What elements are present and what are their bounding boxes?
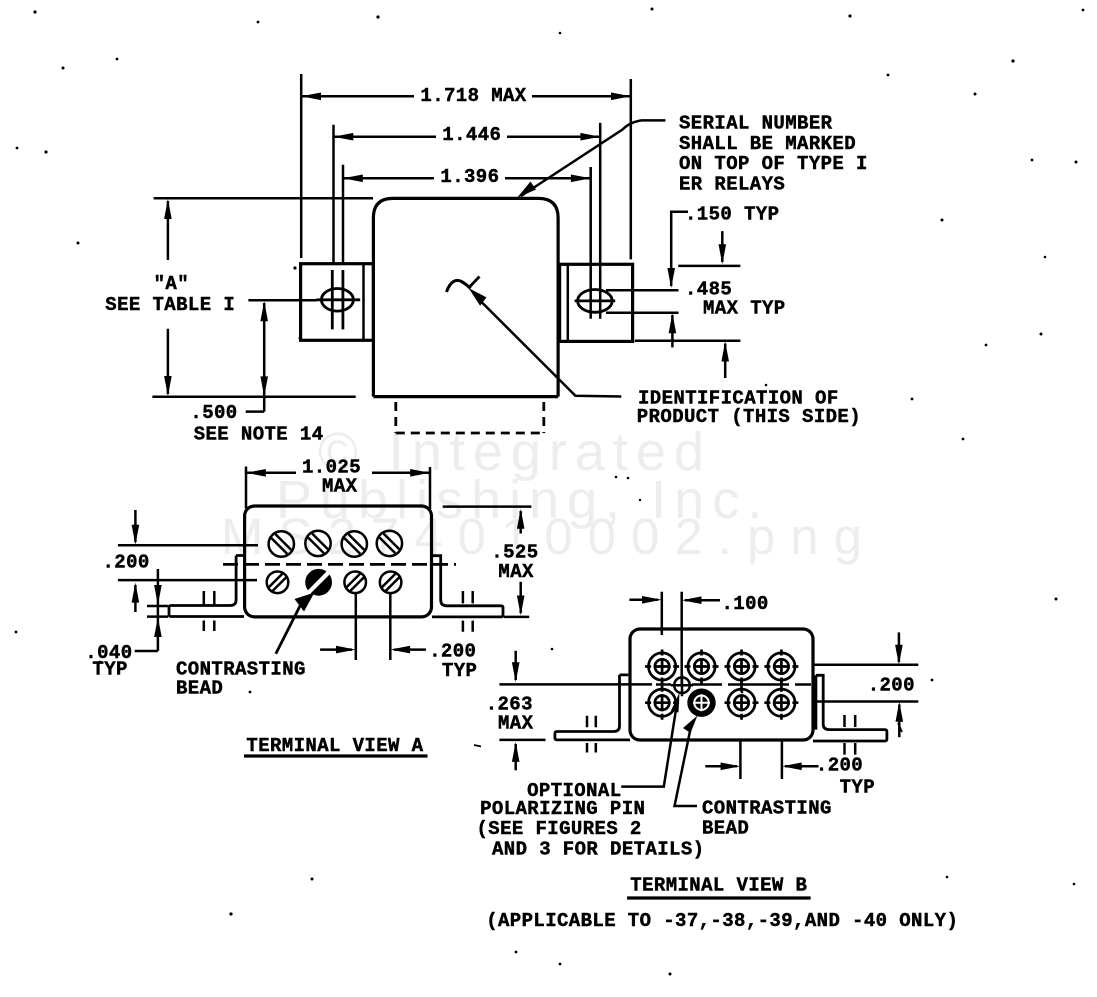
VIEW B .200 right bottom ref line <box>813 700 918 703</box>
dim line 1.396 <box>343 177 591 180</box>
VIEW B .100 arrows <box>629 599 720 602</box>
right mounting bracket <box>560 264 633 341</box>
svg-text:ER RELAYS: ER RELAYS <box>679 174 785 196</box>
VIEW A 1.025 extension lines <box>246 467 430 510</box>
right screw tangent lines <box>606 290 679 313</box>
identification leader flag <box>469 277 480 289</box>
extension line 1.396 left <box>342 165 345 264</box>
svg-text:TERMINAL VIEW A: TERMINAL VIEW A <box>246 735 423 757</box>
VIEW B polarizing pin <box>671 674 693 696</box>
VIEW B .263 down arrow <box>514 651 517 680</box>
A dim top reference line <box>154 197 373 200</box>
svg-text:.200: .200 <box>816 755 863 777</box>
VIEW B .200 TYP arrows <box>705 765 818 768</box>
VIEW A .525 bottom ref line <box>504 616 529 619</box>
hidden base (dashed) <box>396 402 544 433</box>
VIEW B right flange <box>813 675 887 741</box>
svg-text:BEAD: BEAD <box>176 678 223 700</box>
underline terminal view A <box>244 754 428 757</box>
VIEW B .200 right up arrow <box>898 705 901 738</box>
left bracket screw <box>321 289 353 312</box>
svg-text:TYP: TYP <box>442 660 477 682</box>
identification leader diagonal <box>479 300 621 397</box>
VIEW A .200 down arrow <box>134 510 137 542</box>
svg-text:MAX: MAX <box>498 713 534 735</box>
svg-text:MAX: MAX <box>498 561 534 583</box>
right screw slot line <box>575 299 616 302</box>
extension line 1.446 left <box>332 125 335 264</box>
VIEW B .200 right down arrow <box>898 632 901 662</box>
left bracket inner edge <box>362 264 365 341</box>
VIEW A .200 upper ref line <box>118 544 258 547</box>
svg-text:1.396: 1.396 <box>440 166 499 188</box>
extension line 1.718 right <box>630 79 633 259</box>
VIEW A left flange <box>169 556 245 617</box>
VIEW B polarizing pin leader <box>621 700 677 787</box>
relay body (side view) <box>373 198 558 396</box>
VIEW B left flange <box>555 675 630 740</box>
VIEW B bottom leader lines <box>740 741 782 779</box>
extension line 1.446 right <box>599 123 602 319</box>
right bracket screw <box>578 290 613 313</box>
A dim bottom reference line <box>152 395 355 398</box>
bracket top extension line <box>678 265 740 268</box>
.150 TYP leader <box>671 212 688 286</box>
identification leader arrow <box>469 288 487 306</box>
.485 lower up arrow <box>724 344 727 379</box>
extension line 1.718 left <box>300 74 303 258</box>
VIEW A right flange <box>432 556 503 617</box>
VIEW A screw B1 <box>267 572 289 594</box>
VIEW B terminal T3 <box>725 650 759 684</box>
left screw vertical lines <box>332 270 343 329</box>
VIEW A bottom leader lines <box>356 593 391 660</box>
svg-text:(SEE FIGURES 2: (SEE FIGURES 2 <box>477 818 642 840</box>
svg-text:POLARIZING PIN: POLARIZING PIN <box>480 798 645 820</box>
svg-text:PRODUCT (THIS SIDE): PRODUCT (THIS SIDE) <box>637 406 861 428</box>
svg-text:ON TOP OF TYPE I: ON TOP OF TYPE I <box>679 153 868 175</box>
VIEW B .263 bottom ref line <box>499 739 545 742</box>
svg-text:SEE NOTE 14: SEE NOTE 14 <box>194 424 324 446</box>
VIEW A .040 dim <box>135 569 158 651</box>
svg-text:SHALL BE MARKED: SHALL BE MARKED <box>679 133 856 155</box>
svg-text:"A": "A" <box>154 273 189 295</box>
svg-text:.150 TYP: .150 TYP <box>685 204 779 226</box>
VIEW A body <box>245 506 432 617</box>
.485 upper arrow <box>721 231 724 262</box>
underline terminal view B <box>627 896 811 899</box>
extension line 1.396 right <box>589 167 592 319</box>
VIEW B right flange hole marks <box>845 715 856 755</box>
VIEW A .525 top ref line <box>443 505 532 508</box>
serial number leader <box>521 120 665 196</box>
VIEW B .263 up arrow <box>514 744 517 770</box>
VIEW A screw A3 <box>342 531 367 556</box>
right bracket inner edge <box>567 264 570 341</box>
svg-text:TYP: TYP <box>840 777 875 799</box>
left screw slot line <box>317 298 361 301</box>
VIEW A screw A1 <box>269 531 294 556</box>
VIEW B contrasting bead (filled) <box>687 689 715 717</box>
svg-text:MAX TYP: MAX TYP <box>703 298 786 320</box>
VIEW B terminal T2 <box>685 650 719 684</box>
svg-text:.100: .100 <box>722 593 769 615</box>
svg-text:SEE TABLE I: SEE TABLE I <box>105 294 235 316</box>
VIEW A bead leader <box>276 600 303 654</box>
identification leader hook <box>447 280 471 292</box>
.485 inner up arrow <box>671 315 674 347</box>
svg-text:TYP: TYP <box>92 659 127 681</box>
VIEW B centerline (dashed+solid) <box>499 683 652 686</box>
VIEW A .525 down arrow <box>519 582 522 613</box>
VIEW A left flange hole marks <box>204 591 215 631</box>
svg-text:.200: .200 <box>868 675 915 697</box>
VIEW A .525 up arrow <box>519 511 522 534</box>
svg-text:BEAD: BEAD <box>702 818 749 840</box>
svg-text:(APPLICABLE TO -37,-38,-39,AND: (APPLICABLE TO -37,-38,-39,AND -40 ONLY) <box>486 910 958 932</box>
dim line 1.718 <box>301 95 631 98</box>
VIEW B terminal T4 <box>764 650 798 684</box>
.500 dim line <box>246 303 265 412</box>
VIEW B body <box>630 629 813 740</box>
VIEW B terminal T1 <box>645 650 679 684</box>
VIEW B left flange hole marks <box>587 716 596 753</box>
A dim arrow up <box>167 201 170 260</box>
relay body bottom edge <box>373 395 558 398</box>
VIEW A screw B4 <box>380 572 402 594</box>
VIEW B bead leader <box>675 724 698 806</box>
svg-text:1.446: 1.446 <box>442 124 501 146</box>
dim line 1.446 <box>334 135 601 138</box>
svg-text:1.718 MAX: 1.718 MAX <box>420 85 526 107</box>
VIEW A screw B3 <box>344 572 366 594</box>
VIEW A right flange hole marks <box>463 591 473 632</box>
svg-text:AND 3 FOR DETAILS): AND 3 FOR DETAILS) <box>492 839 704 861</box>
svg-text:MAX: MAX <box>322 476 358 498</box>
A dim arrow down <box>167 329 170 394</box>
VIEW B .100 extension lines <box>662 592 682 686</box>
VIEW B terminal T7 <box>725 686 759 720</box>
VIEW B terminal T5 <box>645 686 679 720</box>
svg-text:.500: .500 <box>190 402 237 424</box>
VIEW A .200 lower ref line <box>118 579 257 582</box>
VIEW A .200 TYP dim arrows <box>320 648 426 651</box>
VIEW A contrasting bead (filled) <box>305 569 332 596</box>
VIEW A screw A2 <box>305 531 330 556</box>
VIEW A .200 up arrow <box>134 585 137 612</box>
VIEW B terminal T8 <box>764 686 798 720</box>
svg-text:CONTRASTING: CONTRASTING <box>702 798 832 820</box>
VIEW A screw A4 <box>377 531 402 556</box>
svg-text:.200: .200 <box>103 552 150 574</box>
VIEW B .200 right top ref line <box>813 664 918 667</box>
svg-text:TERMINAL VIEW B: TERMINAL VIEW B <box>630 875 807 897</box>
left mounting bracket <box>301 264 374 341</box>
svg-text:SERIAL NUMBER: SERIAL NUMBER <box>679 113 833 135</box>
SEE TABLE I leader <box>248 299 316 302</box>
VIEW A centerline (dashed) <box>223 563 456 566</box>
VIEW A 1.025 dim line <box>246 472 430 475</box>
bracket bottom extension line <box>635 339 741 342</box>
